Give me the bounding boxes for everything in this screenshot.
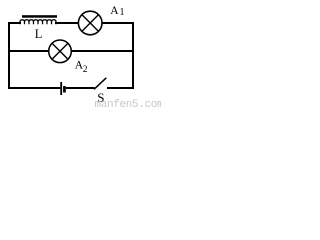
battery long plate: [60, 82, 62, 95]
lamp A1: [78, 11, 102, 35]
svg-text:A: A: [110, 5, 119, 17]
wire top left segment: [8, 22, 21, 24]
wire middle branch left: [8, 50, 50, 52]
wire right vertical: [132, 22, 134, 89]
wire left vertical: [8, 22, 10, 89]
svg-text:1: 1: [120, 7, 125, 18]
svg-text:2: 2: [83, 65, 88, 75]
wire top middle segment: [55, 22, 79, 24]
battery short plate: [63, 86, 66, 93]
inductor L coil: [20, 20, 56, 25]
wire middle branch right: [71, 50, 134, 52]
lamp A2: [49, 40, 72, 63]
svg-text:L: L: [35, 27, 43, 41]
wire top right segment: [102, 22, 135, 24]
switch S blade: [94, 78, 106, 90]
inductor L core bar: [22, 15, 57, 18]
wire bottom middle segment: [66, 87, 95, 89]
wire bottom left segment: [8, 87, 60, 89]
wire bottom right segment: [107, 87, 134, 89]
svg-text:manfen5.com: manfen5.com: [95, 99, 162, 109]
